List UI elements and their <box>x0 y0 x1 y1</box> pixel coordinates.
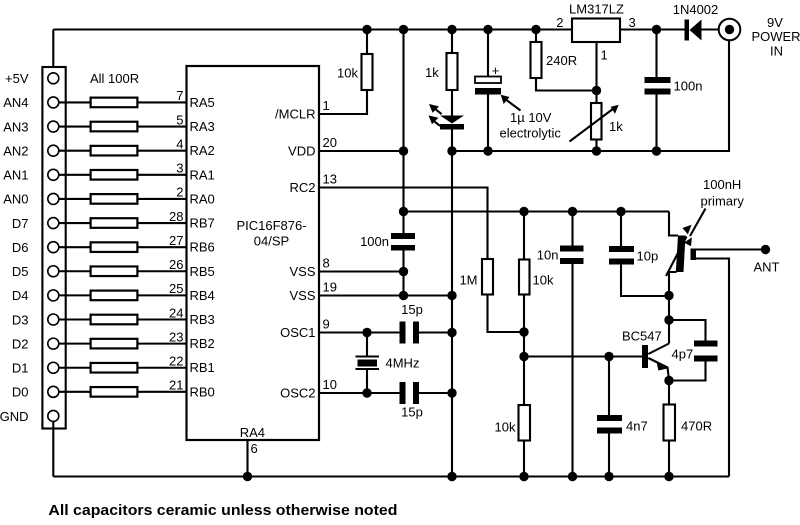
label 4n7 <box>626 419 648 434</box>
pin number 25 <box>169 281 183 296</box>
node AN1 label <box>3 168 28 183</box>
wire 10k lower feed <box>523 357 525 406</box>
svg-text:6: 6 <box>251 441 258 456</box>
svg-text:10n: 10n <box>537 248 559 263</box>
junction 1M/10k <box>519 327 528 336</box>
connector pin D5 <box>48 266 59 277</box>
svg-text:13: 13 <box>323 172 337 187</box>
svg-text:25: 25 <box>169 281 183 296</box>
svg-text:AN1: AN1 <box>3 168 28 183</box>
resistor R10 100R <box>91 315 138 325</box>
pin name VSS <box>289 288 315 303</box>
svg-text:D7: D7 <box>12 216 29 231</box>
svg-text:RB3: RB3 <box>190 312 215 327</box>
junction gnd column OSC1 <box>447 328 456 337</box>
svg-text:+5V: +5V <box>5 71 29 86</box>
inductor L1 primary winding <box>676 236 686 273</box>
wire +5V top rail <box>53 28 572 30</box>
svg-text:AN0: AN0 <box>3 192 28 207</box>
wire resistor to chip RB6 <box>137 246 186 248</box>
svg-text:1N4002: 1N4002 <box>673 2 719 17</box>
note text <box>48 503 397 519</box>
junction gnd rail x=488 <box>483 146 492 155</box>
svg-text:RB1: RB1 <box>190 360 215 375</box>
label 1k <box>425 65 439 80</box>
pin number 1 <box>601 48 608 63</box>
wire emitter to 470R <box>668 381 670 405</box>
wire OSC2 left <box>319 392 400 394</box>
wire RA4 to ground rail <box>246 440 248 477</box>
pin name VDD <box>288 144 315 159</box>
svg-text:VDD: VDD <box>288 144 315 159</box>
junction gnd rail x=656.5 <box>652 146 661 155</box>
svg-text:RA0: RA0 <box>190 191 215 206</box>
resistor R6 100R <box>91 218 138 228</box>
svg-text:15p: 15p <box>401 302 423 317</box>
svg-text:RB5: RB5 <box>190 264 215 279</box>
wire 10k top feed <box>523 212 525 260</box>
svg-text:OSC1: OSC1 <box>280 325 315 340</box>
wire pin3 to diode <box>620 28 685 30</box>
node D6 label <box>12 240 29 255</box>
resistor R1 100R <box>91 98 138 108</box>
junction bottom rail x=669 <box>664 472 673 481</box>
pin name VSS <box>289 264 315 279</box>
capacitor 10n <box>560 246 584 265</box>
resistor R5 100R <box>91 194 138 204</box>
svg-text:15p: 15p <box>401 405 423 420</box>
node AN4 label <box>3 95 28 110</box>
wire 10p top <box>620 212 622 247</box>
pin name RA4 <box>240 425 265 440</box>
resistor 10k pullup <box>362 54 373 90</box>
connector pin AN2 <box>48 145 59 156</box>
wire resistor to chip RB5 <box>137 270 186 272</box>
LED arrow 2 <box>429 115 441 126</box>
junction VSS8 <box>399 267 408 276</box>
svg-text:21: 21 <box>169 378 183 393</box>
node D7 label <box>12 216 29 231</box>
svg-text:1k: 1k <box>609 119 623 134</box>
wire resistor to chip RB0 <box>137 391 186 393</box>
resistor R12 100R <box>91 363 138 373</box>
svg-text:9V: 9V <box>767 15 783 30</box>
label 10p <box>637 249 659 264</box>
label electrolytic <box>500 126 562 141</box>
svg-text:10p: 10p <box>637 249 659 264</box>
svg-text:D0: D0 <box>12 385 29 400</box>
svg-text:2: 2 <box>176 185 183 200</box>
potentiometer 1k body <box>591 103 602 140</box>
wire AN3 to resistor <box>59 125 91 127</box>
wire 4p7 top <box>669 320 706 341</box>
junction +5V dist <box>399 207 408 216</box>
junction top rail x=367 <box>362 25 371 34</box>
wire D1 to resistor <box>59 367 91 369</box>
transistor Q1 base bar <box>642 345 648 368</box>
label arrow to primary <box>684 209 706 247</box>
wire collector column <box>668 296 670 344</box>
svg-text:AN3: AN3 <box>3 119 28 134</box>
wire crystal top stub <box>366 333 368 356</box>
label 1M <box>459 273 477 288</box>
IC U1 name line1 <box>236 218 306 233</box>
junction gnd rail x=452 <box>447 146 456 155</box>
junction dist x=621 <box>616 207 625 216</box>
svg-text:8: 8 <box>323 256 330 271</box>
svg-text:POWER: POWER <box>751 29 800 44</box>
svg-text:4MHz: 4MHz <box>386 356 420 371</box>
svg-text:1: 1 <box>601 48 608 63</box>
label ANT <box>754 260 780 275</box>
svg-text:1k: 1k <box>425 65 439 80</box>
wire AN1 to resistor <box>59 174 91 176</box>
node D3 label <box>12 312 29 327</box>
label IN <box>770 44 783 59</box>
LED D2 cathode bar <box>440 124 464 130</box>
label 15p top <box>401 302 423 317</box>
svg-text:3: 3 <box>629 15 636 30</box>
resistor 470R <box>664 405 676 441</box>
label LM317LZ <box>569 2 624 17</box>
label All 100R <box>90 71 139 86</box>
svg-text:22: 22 <box>169 354 183 369</box>
pin number 6 <box>251 441 258 456</box>
wire D4 to resistor <box>59 294 91 296</box>
wire +5V riser from connector to top rail <box>52 30 54 73</box>
pin number 22 <box>169 354 183 369</box>
junction diode rail <box>652 25 661 34</box>
svg-text:RC2: RC2 <box>289 180 315 195</box>
label plus <box>492 63 500 78</box>
svg-text:10k: 10k <box>533 273 554 288</box>
wire 100n top <box>655 30 657 78</box>
svg-text:All 100R: All 100R <box>90 71 139 86</box>
resistor 240R <box>531 42 542 78</box>
pin name OSC1 <box>280 325 315 340</box>
pin name OSC2 <box>280 386 315 401</box>
wire resistor to chip RB2 <box>137 343 186 345</box>
LED arrow 1 <box>429 104 442 114</box>
pin name RB2 <box>190 336 215 351</box>
resistor R4 100R <box>91 170 138 180</box>
label 1k pot <box>609 119 623 134</box>
wire elec top <box>487 30 489 77</box>
svg-text:470R: 470R <box>681 419 712 434</box>
wire ground column <box>451 151 453 477</box>
wire RC2 to 1M <box>319 188 488 260</box>
junction RA4/ground <box>243 472 252 481</box>
node AN2 label <box>3 143 28 158</box>
wire diode to connector <box>702 28 720 30</box>
wire AN4 to resistor <box>59 101 91 103</box>
junction emitter/4p7 <box>664 376 673 385</box>
wire D0 to resistor <box>59 391 91 393</box>
pin number 4 <box>176 136 183 151</box>
label 100nH <box>703 177 741 192</box>
junction top rail x=403.5 <box>399 25 408 34</box>
junction bottom rail x=572.5 <box>568 472 577 481</box>
connector pin D7 <box>48 218 59 229</box>
wire OSC1 left <box>319 331 400 333</box>
label 9V <box>767 15 783 30</box>
connector J1 body <box>42 67 65 429</box>
svg-text:GND: GND <box>0 409 29 424</box>
label BC547 <box>622 329 662 344</box>
svg-text:PIC16F876-: PIC16F876- <box>236 218 306 233</box>
wire OSC1 right <box>419 331 452 333</box>
label 1u 10V <box>510 110 552 125</box>
connector pin D4 <box>48 290 59 301</box>
resistor R2 100R <box>91 122 138 132</box>
capacitor 4n7 <box>597 415 622 434</box>
svg-text:5: 5 <box>176 112 183 127</box>
pin number 3 <box>629 15 636 30</box>
resistor R3 100R <box>91 146 138 156</box>
svg-text:D2: D2 <box>12 336 29 351</box>
pin name RB0 <box>190 384 215 399</box>
connector J2 power outer <box>719 19 741 41</box>
resistor 10k lower <box>519 405 531 441</box>
wire LED to gnd <box>451 130 453 152</box>
wire resistor to chip RB7 <box>137 222 186 224</box>
svg-text:24: 24 <box>169 305 183 320</box>
pin name RA0 <box>190 191 215 206</box>
pin name RA1 <box>190 167 215 182</box>
wire +5V distribution <box>404 210 670 212</box>
node ANT terminal <box>761 245 770 254</box>
wire LM317 pin1 stub <box>595 42 597 91</box>
IC U1 name line2 <box>254 234 289 249</box>
wire 10p to collector <box>621 265 669 297</box>
svg-text:ANT: ANT <box>754 260 780 275</box>
resistor R8 100R <box>91 266 138 276</box>
svg-text:10k: 10k <box>337 66 358 81</box>
connector pin AN1 <box>48 169 59 180</box>
label 10k <box>337 66 358 81</box>
connector pin D0 <box>48 386 59 397</box>
wire GND drop <box>52 421 54 476</box>
junction ADJ <box>592 86 601 95</box>
svg-text:RA1: RA1 <box>190 167 215 182</box>
svg-text:D6: D6 <box>12 240 29 255</box>
wire D2 to resistor <box>59 343 91 345</box>
wire 10k top <box>366 30 368 55</box>
junction base/4n7 <box>604 352 613 361</box>
pin name RA2 <box>190 143 215 158</box>
svg-text:AN2: AN2 <box>3 143 28 158</box>
svg-text:RB2: RB2 <box>190 336 215 351</box>
crystal X1 4MHz <box>356 356 380 371</box>
pin name RB4 <box>190 288 215 303</box>
pin name RA3 <box>190 119 215 134</box>
svg-text:28: 28 <box>169 209 183 224</box>
node D2 label <box>12 336 29 351</box>
wire ADJ to pot <box>595 91 597 104</box>
connector pin +5V <box>48 73 59 84</box>
inductor L1 secondary winding <box>691 249 697 261</box>
transistor Q1 collector <box>648 344 669 355</box>
pin name RB3 <box>190 312 215 327</box>
connector pin D1 <box>48 362 59 373</box>
svg-text:RA3: RA3 <box>190 119 215 134</box>
svg-text:D1: D1 <box>12 361 29 376</box>
svg-text:100n: 100n <box>360 234 389 249</box>
pin number 13 <box>323 172 337 187</box>
resistor R11 100R <box>91 339 138 349</box>
wire 100n to VSS <box>402 251 404 296</box>
wire resistor to chip RA1 <box>137 174 186 176</box>
wire 10k to base node <box>523 295 525 357</box>
diode D1 1N4002 cathode bar <box>685 20 690 41</box>
pin number 1 <box>323 98 330 113</box>
label 1N4002 <box>673 2 719 17</box>
wire resistor to chip RB3 <box>137 318 186 320</box>
label primary <box>701 194 745 209</box>
wire secondary to gnd <box>696 259 729 477</box>
wire resistor to chip RB1 <box>137 367 186 369</box>
wire D5 to resistor <box>59 270 91 272</box>
label 100n power <box>674 79 703 94</box>
LED D2 triangle <box>440 116 464 124</box>
pin number 23 <box>169 329 183 344</box>
elec annotation arrow <box>501 95 521 111</box>
svg-text:20: 20 <box>323 135 337 150</box>
svg-text:23: 23 <box>169 329 183 344</box>
label 100n <box>360 234 389 249</box>
pin number 9 <box>323 317 330 332</box>
svg-text:RA4: RA4 <box>240 425 265 440</box>
pin number 19 <box>323 280 337 295</box>
node AN3 label <box>3 119 28 134</box>
wire 470R to gnd <box>668 441 670 477</box>
label 4MHz <box>386 356 420 371</box>
pin name RB7 <box>190 216 215 231</box>
wire 10k to /MCLR <box>319 90 367 114</box>
wire D3 to resistor <box>59 318 91 320</box>
wire resistor to chip RA0 <box>137 198 186 200</box>
svg-text:4p7: 4p7 <box>672 347 694 362</box>
pin name RB1 <box>190 360 215 375</box>
svg-text:/MCLR: /MCLR <box>275 107 315 122</box>
svg-text:1M: 1M <box>459 273 477 288</box>
regulator U2 LM317LZ body <box>572 19 620 43</box>
pin number 28 <box>169 209 183 224</box>
pin number 21 <box>169 378 183 393</box>
junction primary/10p <box>664 291 673 300</box>
svg-text:26: 26 <box>169 257 183 272</box>
capacitor C elec neg plate <box>475 88 501 95</box>
wire +5V column upper <box>402 30 404 234</box>
pin name RB5 <box>190 264 215 279</box>
node +5V label <box>5 71 29 86</box>
label 470R <box>681 419 712 434</box>
svg-text:electrolytic: electrolytic <box>500 126 562 141</box>
svg-text:RB6: RB6 <box>190 240 215 255</box>
svg-text:VSS: VSS <box>289 264 315 279</box>
label 15p bottom <box>401 405 423 420</box>
junction gnd rail x=596.5 <box>592 146 601 155</box>
label 10k lower <box>495 420 516 435</box>
pin name RA5 <box>190 95 215 110</box>
wire resistor to chip RA2 <box>137 150 186 152</box>
resistor R9 100R <box>91 291 138 301</box>
pin name RC2 <box>289 180 315 195</box>
wire 4n7 to gnd <box>608 434 610 477</box>
pin number 27 <box>169 233 183 248</box>
svg-text:04/SP: 04/SP <box>254 234 289 249</box>
node D0 label <box>12 385 29 400</box>
label 240R <box>546 53 577 68</box>
pin number 26 <box>169 257 183 272</box>
wire 100n to gnd <box>655 95 657 152</box>
label POWER <box>751 29 800 44</box>
junction collector/4p7 <box>664 315 673 324</box>
wire 240R to ADJ <box>536 78 597 91</box>
wire dist to primary <box>669 212 678 236</box>
label 4p7 <box>672 347 694 362</box>
wire resistor to chip RB4 <box>137 294 186 296</box>
svg-text:10: 10 <box>323 377 337 392</box>
svg-text:100nH: 100nH <box>703 177 741 192</box>
junction bottom rail x=524 <box>519 472 528 481</box>
wire ground bottom rail <box>53 475 729 477</box>
wire AN0 to resistor <box>59 198 91 200</box>
junction top rail x=536 <box>531 25 540 34</box>
transistor Q1 emitter <box>648 358 669 380</box>
wire 240R top <box>535 30 537 43</box>
wire 4n7 top <box>608 357 610 416</box>
resistor 10k upper <box>519 260 530 295</box>
svg-text:3: 3 <box>176 161 183 176</box>
junction bottom rail x=609 <box>604 472 613 481</box>
pin number 8 <box>323 256 330 271</box>
connector pin D6 <box>48 242 59 253</box>
svg-text:RB7: RB7 <box>190 216 215 231</box>
wire 10k lower to gnd <box>523 441 525 477</box>
connector pin AN0 <box>48 193 59 204</box>
pin number 20 <box>323 135 337 150</box>
capacitor 100n power <box>645 77 671 95</box>
svg-text:4n7: 4n7 <box>626 419 648 434</box>
capacitor C elec plus plate <box>475 77 501 84</box>
wire resistor to chip RA3 <box>137 125 186 127</box>
svg-text:10k: 10k <box>495 420 516 435</box>
resistor R13 100R <box>91 387 138 397</box>
svg-text:D4: D4 <box>12 288 29 303</box>
svg-text:1µ 10V: 1µ 10V <box>510 110 552 125</box>
svg-text:VSS: VSS <box>289 288 315 303</box>
wire secondary to ANT <box>696 248 765 250</box>
wire primary bottom <box>669 272 677 296</box>
wire D7 to resistor <box>59 222 91 224</box>
connector pin AN4 <box>48 97 59 108</box>
svg-text:4: 4 <box>176 136 183 151</box>
junction VSS19 a <box>399 291 408 300</box>
pin number 7 <box>176 88 183 103</box>
resistor 1M <box>482 259 493 295</box>
wire D6 to resistor <box>59 246 91 248</box>
label 10n <box>537 248 559 263</box>
connector pin GND <box>48 410 59 421</box>
wire resistor to chip RA5 <box>137 101 186 103</box>
svg-text:primary: primary <box>701 194 745 209</box>
junction top rail x=452 <box>447 25 456 34</box>
pin name /MCLR <box>275 107 315 122</box>
pin number 10 <box>323 377 337 392</box>
node D4 label <box>12 288 29 303</box>
junction gnd column OSC2 <box>447 388 456 397</box>
